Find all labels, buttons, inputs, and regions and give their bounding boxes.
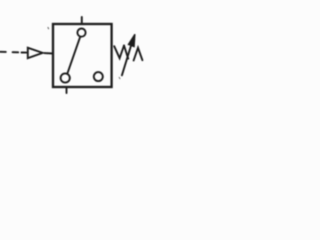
top contact circle [77, 28, 85, 36]
bottom terminal stem [66, 87, 68, 93]
wire: dash from triangle apex to enclosure [44, 52, 52, 54]
switch enclosure box [53, 24, 112, 87]
spring zigzag middle descending segment [124, 46, 128, 59]
spring zigzag right peak [134, 48, 143, 61]
adjustment arrow shaft [122, 41, 133, 76]
spring zigzag left V [114, 46, 124, 59]
actuator triangle (amplifier symbol, pointing right) [28, 48, 43, 59]
adjustment arrowhead [128, 34, 135, 46]
switch lever arm [67, 37, 80, 73]
speck noise below arrow shaft [118, 77, 121, 78]
wire: dashed actuation line segment 1 [0, 51, 6, 53]
wire: dashed actuation line segment 3 [22, 52, 27, 54]
wire: dashed actuation line segment 2 [13, 51, 19, 53]
top terminal stem [81, 17, 83, 24]
lower-right contact circle [94, 72, 103, 81]
speck noise left of box [47, 28, 50, 29]
lower-left contact circle [61, 73, 70, 82]
